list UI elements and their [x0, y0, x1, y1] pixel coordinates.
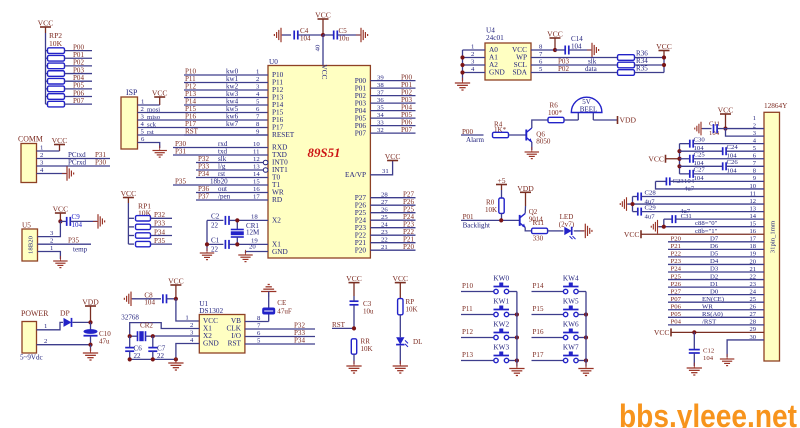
ground (C11) rotated: [695, 122, 706, 136]
svg-text:1: 1: [40, 145, 43, 152]
wire net P34: [151, 235, 173, 237]
wire COMM pin3 net P30 PCrxd: [37, 165, 111, 167]
wire U1 RST pin5 net P34: [245, 343, 315, 345]
capacitor C9 104: [60, 220, 66, 222]
svg-text:C9: C9: [72, 213, 81, 221]
wire lcd pin12: [628, 203, 765, 205]
wire KW6 to bus: [578, 337, 586, 339]
power flag VCC (lcd pin16): [640, 230, 642, 238]
wire net P23 right: [370, 227, 415, 229]
wire ISP pin4 sck: [138, 127, 269, 129]
wire net P37 /pen: [196, 199, 268, 201]
wire buzzer to VDD: [593, 119, 617, 121]
resistor RP1 element 2: [128, 235, 134, 237]
ground (COMM): [62, 166, 74, 180]
crystal CR1 12M: [236, 220, 238, 229]
svg-text:P15: P15: [533, 305, 544, 313]
svg-text:2: 2: [50, 238, 53, 245]
wire net P13 kw3: [184, 97, 268, 99]
svg-text:10K: 10K: [49, 39, 63, 48]
junction CR2 left: [128, 334, 132, 338]
svg-text:Backlight: Backlight: [463, 222, 490, 230]
resistor RP2 element 4: [46, 80, 48, 82]
wire LED to ground: [574, 230, 584, 232]
wire net P22 right: [370, 234, 415, 236]
svg-text:1: 1: [141, 99, 144, 106]
svg-text:104: 104: [72, 221, 83, 229]
capacitor C12 104: [693, 332, 695, 349]
svg-text:P32: P32: [154, 211, 165, 219]
svg-text:P16: P16: [533, 328, 544, 336]
svg-text:VCC: VCC: [656, 42, 672, 51]
wire net P03 right: [370, 102, 415, 104]
svg-text:104: 104: [144, 299, 155, 307]
svg-text:KW4: KW4: [563, 275, 579, 283]
wire net P00: [65, 50, 93, 52]
svg-text:COMM: COMM: [18, 135, 43, 144]
rtc U1 DS1302: [199, 315, 245, 354]
wire net P04 right: [370, 110, 415, 112]
wire VCC to pin 40: [322, 35, 324, 66]
wire U4 pin2: [463, 57, 486, 59]
junction X2: [235, 218, 239, 222]
wire U4 SCL pin6 net P03 slk: [531, 64, 618, 66]
wire U1 X1 pin2 loop: [130, 323, 200, 337]
svg-text:KW2: KW2: [493, 321, 509, 329]
svg-text:P07: P07: [355, 129, 367, 137]
wire ISP pin2 mosi: [138, 112, 269, 114]
capacitor C25 104: [680, 158, 690, 160]
svg-text:rst: rst: [147, 129, 154, 136]
junction keypad col1 row1: [584, 312, 588, 316]
svg-text:P34: P34: [198, 170, 209, 178]
wire lcd pin10: [656, 181, 765, 189]
ground (U4): [455, 78, 470, 90]
wire net P05: [65, 88, 93, 90]
wire net P14 kw4: [184, 104, 268, 106]
wire net P05 right: [370, 117, 415, 119]
wire net P00 right: [370, 80, 415, 82]
capacitor C24 104: [680, 150, 723, 152]
svg-text:R11: R11: [533, 219, 545, 227]
svg-text:KW6: KW6: [563, 321, 579, 329]
ground (18B20): [53, 256, 67, 268]
resistor RP2 element 2: [46, 65, 48, 67]
capacitor C30 104: [680, 143, 690, 145]
svg-text:VCC: VCC: [385, 152, 401, 161]
wire net P03: [65, 73, 93, 75]
svg-text:VCC: VCC: [547, 30, 563, 39]
wire lcd cap bus: [679, 144, 681, 174]
wire net P06 right: [370, 125, 415, 127]
wire U1 GND pin4: [176, 344, 199, 362]
wire U4 pin3: [463, 64, 486, 66]
svg-text:P07: P07: [671, 296, 682, 303]
svg-text:VCC: VCC: [52, 136, 68, 145]
svg-text:VCC: VCC: [53, 205, 69, 214]
svg-text:C27: C27: [694, 167, 706, 174]
wire KW7 to bus: [578, 360, 586, 362]
capacitor C27 104: [680, 173, 690, 175]
svg-text:10K: 10K: [485, 206, 498, 214]
junction C10 gnd: [88, 343, 92, 347]
ground (CE) inverted: [261, 284, 276, 296]
power flag VCC (lcd bus): [665, 155, 667, 163]
svg-text:C2: C2: [211, 212, 220, 220]
junction bus pin7: [677, 164, 681, 168]
wire lcd pin2: [726, 128, 765, 130]
ground (U1): [168, 358, 183, 370]
svg-text:kw7: kw7: [226, 120, 239, 128]
svg-text:C1: C1: [211, 236, 220, 244]
svg-text:12864Y: 12864Y: [764, 102, 788, 110]
svg-text:P20: P20: [355, 246, 367, 254]
junction keypad col1 row3: [584, 358, 588, 362]
wire RP1 bus: [127, 203, 129, 244]
svg-text:VCC: VCC: [121, 189, 137, 198]
svg-text:2: 2: [190, 322, 193, 329]
wire net P07 right: [370, 132, 415, 134]
svg-text:C11: C11: [709, 121, 720, 128]
svg-text:VDD: VDD: [82, 298, 99, 307]
ground (C12): [687, 363, 702, 375]
junction rail gnd: [174, 357, 178, 361]
resistor R36: [618, 55, 635, 61]
svg-text:DP: DP: [60, 309, 70, 318]
ground (MCU GND): [238, 250, 252, 262]
junction lcd pin12: [630, 202, 634, 206]
wire net P30 rxd: [173, 147, 268, 149]
wire POWER pin1: [37, 322, 64, 329]
svg-text:D1: D1: [710, 281, 718, 288]
svg-text:P07: P07: [73, 97, 84, 105]
wire net P06: [65, 96, 93, 98]
svg-text:P07: P07: [401, 126, 412, 134]
svg-text:RST: RST: [332, 321, 346, 329]
svg-text:VCC: VCC: [624, 230, 640, 239]
junction lcd pin15: [662, 225, 666, 229]
wire RP2 bus: [45, 33, 47, 104]
svg-text:RESET: RESET: [272, 131, 295, 139]
connector ISP: [121, 97, 138, 149]
wire net P12 kw2: [184, 89, 268, 91]
ground (Q6): [525, 147, 539, 159]
wire KW4 to bus: [578, 291, 586, 293]
resistor RP2 element 7: [46, 103, 48, 105]
junction R36: [662, 55, 666, 59]
wire MCU GND pin20: [246, 252, 269, 254]
wire keypad bus col0: [516, 292, 518, 367]
svg-text:4u7: 4u7: [645, 213, 656, 220]
wire U1 X2 pin3: [153, 335, 200, 337]
junction keypad col1 row2: [584, 335, 588, 339]
svg-text:DL: DL: [413, 338, 422, 346]
svg-text:104: 104: [571, 43, 582, 51]
svg-text:U5: U5: [22, 222, 31, 230]
capacitor C26 104: [680, 165, 723, 167]
ground (ISP): [152, 145, 166, 157]
svg-text:DS1302: DS1302: [199, 307, 223, 315]
svg-text:24c01: 24c01: [486, 34, 504, 42]
svg-text:P37: P37: [198, 193, 209, 201]
wire COMM pin1 to VCC: [37, 150, 60, 152]
junction U4 pin2: [460, 55, 464, 59]
resistor R0 10K: [501, 190, 503, 198]
capacitor C6 22: [129, 336, 131, 347]
ground (LED) rotated: [580, 224, 592, 238]
wire 18B20 pin2 net P35 temp: [38, 243, 92, 245]
svg-text:EN(CE): EN(CE): [702, 296, 724, 303]
capacitor C7 22: [152, 336, 154, 347]
ground (lcd pin30): [720, 354, 734, 366]
resistor RP2 element 3: [46, 73, 48, 75]
power flag VCC (lcd pin29): [670, 328, 672, 336]
junction bus pin6: [677, 157, 681, 161]
svg-text:104: 104: [703, 355, 714, 362]
svg-text:mosi: mosi: [147, 107, 160, 114]
svg-text:1: 1: [50, 245, 53, 252]
svg-text:18B20: 18B20: [28, 235, 35, 254]
capacitor CE 47uF: [268, 292, 270, 308]
svg-text:C28: C28: [645, 189, 657, 196]
wire net P02 right: [370, 95, 415, 97]
svg-text:VDD: VDD: [620, 116, 637, 125]
svg-text:31pin_1mm: 31pin_1mm: [770, 220, 777, 253]
svg-text:R35: R35: [636, 65, 648, 73]
wire U1 VB pin8: [245, 321, 269, 323]
capacitor C8 104: [132, 298, 161, 300]
wire lcd pin18 net P21: [668, 248, 764, 250]
capacitor C3 10u: [350, 300, 359, 302]
svg-text:8050: 8050: [536, 138, 551, 146]
mcu U0 89S51: [268, 66, 370, 259]
junction CR2 right: [151, 334, 155, 338]
junction U4 VCC: [553, 48, 557, 52]
svg-text:1: 1: [185, 315, 188, 322]
svg-text:VCC: VCC: [315, 11, 331, 20]
svg-text:U0: U0: [269, 58, 278, 66]
resistor RP1 element 0: [128, 217, 134, 219]
svg-text:GND: GND: [489, 69, 505, 77]
svg-text:GND: GND: [272, 248, 288, 256]
junction X1: [235, 242, 239, 246]
wire C31 to junction: [663, 219, 665, 227]
svg-text:104: 104: [300, 35, 311, 43]
wire 18B20 pin1 to ground: [38, 252, 61, 260]
wire COMM pin2 net P31 PCtxd: [37, 158, 111, 160]
wire net P32 slk: [196, 162, 263, 164]
svg-text:P35: P35: [175, 178, 186, 186]
svg-text:P23: P23: [671, 258, 682, 265]
wire net P01 right: [370, 87, 415, 89]
svg-text:22: 22: [211, 246, 219, 254]
wire keypad bus col1: [585, 292, 587, 367]
svg-text:RD: RD: [272, 196, 282, 204]
svg-text:VCC: VCC: [718, 106, 734, 115]
svg-text:10K: 10K: [361, 345, 374, 353]
wire lcd pin26 net P06 WR: [668, 309, 764, 311]
wire net P33 l/g: [196, 169, 263, 171]
wire lcd pin25 net P07 EN(CE): [668, 301, 764, 303]
junction lcd vcc: [723, 126, 727, 130]
wire pullup bus: [663, 58, 665, 73]
transistor Q2 9014: [519, 215, 521, 226]
svg-text:5~9Vdc: 5~9Vdc: [20, 354, 43, 362]
wire net P25 right: [370, 212, 415, 214]
wire lcd pin22 net P25: [668, 279, 764, 281]
capacitor C2 22: [207, 219, 223, 221]
wire ISP pin5 rst: [138, 134, 269, 136]
lcd connector 12864Y: [764, 112, 780, 361]
wire U4 VCC pin8: [531, 49, 555, 51]
svg-text:47u: 47u: [99, 338, 110, 346]
svg-text:/RST: /RST: [702, 319, 716, 326]
wire ISP pin6 to ground: [138, 143, 160, 149]
svg-text:/pen: /pen: [218, 193, 231, 201]
wire COMM pin4 to ground: [37, 173, 67, 175]
svg-text:P35: P35: [154, 237, 165, 245]
svg-text:1: 1: [44, 323, 47, 330]
wire net RST to RESET pin9: [184, 134, 268, 136]
svg-text:89S51: 89S51: [308, 146, 341, 160]
svg-text:VCC: VCC: [168, 277, 184, 286]
svg-text:KW5: KW5: [563, 298, 579, 306]
svg-text:P11: P11: [462, 305, 473, 313]
ground (RR): [346, 361, 361, 373]
svg-text:KW3: KW3: [493, 344, 509, 352]
capacitor C10 47u: [90, 322, 92, 330]
svg-text:P35: P35: [68, 237, 79, 245]
svg-text:POWER: POWER: [21, 309, 49, 318]
wire net P31 txd: [173, 154, 268, 156]
junction lcd pin29: [692, 330, 696, 334]
svg-text:2: 2: [44, 338, 47, 345]
wire Q6 collector: [532, 120, 548, 128]
svg-text:10u: 10u: [339, 35, 350, 43]
svg-text:P31: P31: [175, 148, 186, 156]
wire X2 pin18: [237, 219, 268, 221]
svg-text:P25: P25: [671, 273, 682, 280]
ground (keypad col0): [509, 363, 524, 375]
svg-text:temp: temp: [73, 246, 88, 254]
svg-text:10K: 10K: [406, 306, 419, 314]
wire net P26 right: [370, 204, 415, 206]
svg-text:P26: P26: [671, 281, 682, 288]
wire U4 WP pin7: [531, 57, 618, 59]
wire Q2 collector: [524, 206, 526, 213]
svg-text:VCC: VCC: [648, 154, 664, 163]
ground (DL): [393, 361, 408, 373]
svg-text:Alarm: Alarm: [466, 136, 485, 144]
junction bus pin5: [677, 149, 681, 153]
svg-text:C29: C29: [645, 204, 657, 211]
ground (C8) rotated: [124, 292, 136, 306]
svg-text:P27: P27: [671, 288, 682, 295]
buzzer BEEL 5V: [577, 113, 579, 121]
junction C1 left: [205, 242, 209, 246]
pin bubble INT1: [263, 168, 268, 173]
svg-text:PCrxd: PCrxd: [68, 159, 86, 167]
wire U1 IO pin6 net P33: [245, 336, 315, 338]
wire lcd pin27 net P05 RS(A0): [668, 316, 764, 318]
wire net P11 kw1: [184, 82, 268, 84]
wire ISP pin1: [138, 104, 160, 106]
wire net P21 right: [370, 242, 415, 244]
capacitor C4 104: [282, 34, 291, 36]
wire R4 to Q6 base: [509, 134, 527, 136]
svg-text:VCC: VCC: [346, 274, 362, 283]
connector POWER: [22, 322, 37, 354]
wire net P24 right: [370, 219, 415, 221]
svg-text:ISP: ISP: [126, 88, 138, 97]
wire U4 SDA pin5 net P02 data: [531, 72, 618, 74]
wire crystal left leg: [206, 220, 208, 251]
junction R34: [662, 63, 666, 67]
wire X1 pin19: [237, 243, 268, 245]
wire POWER pin2: [37, 344, 91, 346]
wire net RST: [332, 327, 354, 329]
svg-text:P21: P21: [671, 243, 681, 250]
svg-text:2: 2: [141, 106, 144, 113]
capacitor C28 4u7: [633, 196, 638, 198]
svg-text:KW1: KW1: [493, 298, 509, 306]
svg-text:+5: +5: [497, 176, 505, 185]
svg-text:P06: P06: [671, 303, 682, 310]
wire U4 pin4: [463, 72, 486, 74]
LED DL: [396, 337, 404, 344]
connector COMM: [21, 144, 37, 183]
wire lcd pin30: [727, 340, 764, 357]
svg-text:KW0: KW0: [493, 275, 509, 283]
capacitor C14 104: [555, 49, 565, 51]
svg-text:D6: D6: [710, 243, 719, 250]
eeprom U4 24c01: [485, 43, 531, 80]
resistor RP2 element 6: [46, 96, 48, 98]
svg-text:C25: C25: [694, 152, 706, 159]
wire KW5 to bus: [578, 314, 586, 316]
ground (crystal): [200, 248, 214, 260]
svg-text:P20: P20: [403, 243, 414, 251]
junction rail C7: [151, 357, 155, 361]
svg-text:CE: CE: [277, 299, 286, 307]
wire net P20 right: [370, 249, 415, 251]
resistor RP1 element 1: [128, 226, 134, 228]
wire lcd pin19 net P22: [668, 256, 764, 258]
svg-text:40: 40: [315, 44, 322, 51]
svg-text:RST: RST: [228, 340, 242, 348]
wire net P27 right: [370, 197, 415, 199]
svg-text:P12: P12: [462, 328, 473, 336]
svg-text:D7: D7: [710, 236, 719, 243]
wire lcd pin28 net P04 /RST: [668, 324, 764, 326]
svg-text:CR2: CR2: [140, 322, 153, 330]
resistor RP2 element 5: [46, 88, 48, 90]
junction U4 pin3: [460, 63, 464, 67]
sensor U5 18B20: [22, 229, 38, 261]
capacitor C29 4u7: [637, 208, 639, 216]
junction U4 pin4: [460, 70, 464, 74]
svg-text:12M: 12M: [246, 229, 260, 237]
wire lcd pin15 c88: [659, 226, 765, 228]
wire C28 to junction: [632, 197, 634, 212]
svg-text:1: 1: [753, 115, 756, 122]
svg-text:KW7: KW7: [563, 344, 579, 352]
wire U4 pin1: [463, 49, 486, 51]
svg-text:P02: P02: [558, 65, 569, 73]
wire net P01: [65, 57, 93, 59]
ground (C14) rotated: [587, 43, 599, 57]
junction VDD diode: [88, 320, 92, 324]
